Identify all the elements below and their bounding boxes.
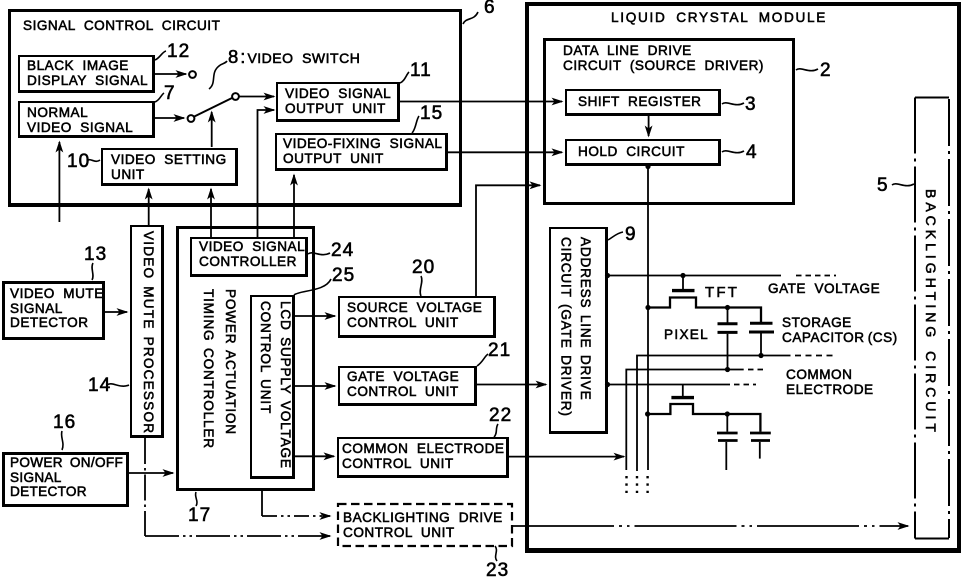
backlighting drive control unit 23 dashed border (338, 504, 512, 546)
storage capacitor 2 stub (759, 442, 761, 459)
block: common electrode control unit 22 (337, 437, 509, 478)
numeral 12 (167, 41, 190, 63)
junction at hold circuit output (645, 164, 650, 169)
junction data line / TFT1 source (645, 305, 650, 310)
block: video mute signal detector 13 (2, 281, 105, 340)
block: backlighting circuit 5 (phantom border, vertical) (921, 189, 940, 436)
junction storage capacitor / CS line (758, 353, 763, 358)
junction TFT1 drain / pixel capacitor (725, 305, 730, 310)
block: video signal output unit 11 (276, 82, 400, 122)
numeral 16 (53, 412, 76, 434)
leader line 15 (412, 116, 419, 133)
gate line 1 from address line driver (608, 275, 781, 277)
wire: video signal controller up to video setting unit (210, 189, 212, 237)
block: gate voltage control unit 21 (338, 366, 477, 406)
block: backlighting drive control unit 23 (dashed border) (338, 504, 512, 546)
switch contact circle (upper) (189, 71, 196, 78)
wire: phantom line to backlighting drive control unit (lower) (145, 535, 330, 537)
TFT2 gate bar (671, 396, 694, 399)
switch contact circle (lower) (188, 115, 195, 122)
leader line 11 (400, 72, 409, 83)
TFT2 gate lead (682, 385, 684, 397)
leader line 6 (463, 12, 478, 24)
TFT1 channel and source/drain (648, 298, 762, 323)
liquid crystal module outer box (525, 2, 961, 553)
TFT2 channel and source/drain (648, 404, 761, 432)
pixel capacitor 2 plates (717, 432, 738, 435)
wire: lcd supply voltage to gate voltage control unit (295, 385, 335, 387)
pixel capacitor plates (718, 322, 738, 325)
storage capacitor 2 plates (750, 432, 771, 435)
numeral 6 (484, 0, 496, 19)
leader line 21 (477, 354, 488, 366)
wire: video signal output unit to shift register (400, 101, 562, 103)
leader line 25 (294, 279, 331, 295)
wire: video mute processor phantom line down (144, 438, 146, 536)
numeral 20 (412, 257, 435, 279)
leader line 22 (494, 424, 498, 437)
numeral 14 (88, 375, 111, 397)
numeral 13 (84, 244, 107, 266)
wire: shift register to hold circuit (648, 116, 650, 136)
label: PIXEL (664, 328, 709, 343)
block: video setting unit 10 (101, 148, 238, 186)
wire: data line from hold circuit down through pixels (647, 166, 649, 470)
common electrode line dashed continuation (748, 369, 767, 371)
block: video mute processor 14 (vertical) (130, 225, 164, 438)
numeral 15 (420, 103, 443, 125)
block: black image display signal 12 (18, 55, 155, 93)
wire: phantom line to backlighting drive control unit (upper) (262, 515, 330, 517)
wire: video signal controller to video-fixing signal output unit (293, 175, 295, 237)
numeral 9 (625, 224, 637, 246)
wire: common electrode control unit output arrow (509, 456, 624, 458)
block: hold circuit 4 (565, 139, 721, 166)
numeral 7 (164, 83, 176, 105)
gate line 2 from address line driver (608, 384, 730, 386)
junction pixel capacitor / common electrode line (725, 367, 730, 372)
leader line 24 (tilde) (308, 253, 330, 255)
block: video signal controller 24 (190, 237, 308, 277)
junction TFT2 drain / capacitor (725, 411, 730, 416)
wire: video signal controller to video signal output unit (258, 110, 275, 237)
block: data line drive circuit (source driver) 2 (543, 38, 795, 205)
leader line 4 (tilde) (722, 151, 744, 153)
TFT1 gate lead (682, 276, 684, 290)
numeral 5 (877, 175, 889, 197)
wire: backlighting drive control unit to backlighting circuit (512, 525, 908, 527)
block: power actuation timing controller 17 (176, 226, 315, 491)
junction on address box edge (gate line 1) (605, 273, 610, 278)
CS line dashed continuation (795, 355, 837, 357)
wire: video mute processor up to video setting unit (148, 189, 150, 225)
numeral 25 (332, 265, 355, 287)
pixel capacitor 2 lead (726, 414, 728, 432)
leader line 5 (tilde) (892, 184, 914, 186)
pixel capacitor 2 stub (725, 442, 727, 470)
wire: timing controller down to backlighting drive control unit (261, 490, 263, 516)
leader line 9 (608, 232, 623, 240)
label: SIGNAL CONTROL CIRCUIT (23, 19, 220, 34)
switch pole circle (232, 93, 239, 100)
junction data line / TFT2 source (645, 411, 650, 416)
TFT1 gate bar (672, 289, 695, 292)
common electrode line with corner down (626, 370, 743, 471)
block: LCD supply voltage control unit 25 (vertical) (250, 295, 295, 479)
block: video-fixing signal output unit 15 (275, 133, 448, 171)
video switch blade 8 (194, 98, 232, 117)
label: GATE VOLTAGE (768, 282, 880, 297)
wire: black image display signal to switch contact (155, 73, 186, 75)
storage capacitor CS plates (750, 322, 773, 325)
leader line 23 (495, 546, 497, 561)
label: COMMON ELECTRODE (786, 368, 874, 397)
wire: video setting unit arrow at switch blade (211, 112, 213, 147)
wire: external video input into normal video signal (58, 142, 60, 222)
leader line 16 (62, 431, 63, 450)
label: STORAGE CAPACITOR (CS) (782, 316, 898, 345)
pixel capacitor C-LC lead upper (727, 308, 729, 323)
wire: gate voltage control unit to address line drive circuit (477, 384, 546, 386)
gate line 1 dashed continuation (796, 275, 836, 277)
storage capacitor lower lead (760, 334, 762, 356)
leader line 10 (tilde) (87, 160, 100, 162)
numeral 11 (410, 60, 432, 82)
numeral 22 (489, 405, 512, 427)
junction at TFT1 gate (680, 273, 685, 278)
pixel capacitor lead lower (727, 334, 729, 370)
wire: lcd supply voltage to source voltage control unit (295, 315, 335, 317)
numeral 17 (188, 505, 211, 527)
leader line 2 (tilde) (796, 69, 818, 71)
leader line 12 (155, 51, 166, 60)
wire: power on/off signal detector to timing controller (129, 472, 173, 474)
wire: lcd supply voltage to common electrode control unit (295, 455, 334, 457)
block: address line drive circuit (gate driver) 9 (vertical) (549, 227, 608, 434)
leader line 7 (155, 93, 164, 102)
leader line 8 (209, 61, 227, 89)
numeral 21 (488, 340, 511, 362)
numeral 4 (746, 142, 758, 164)
block: power on/off signal detector 16 (2, 452, 129, 507)
wire: switch pole to video signal output unit (239, 96, 274, 98)
wire: video-fixing signal output unit to hold circuit (448, 151, 562, 153)
wire: normal video signal to switch contact (155, 117, 184, 119)
leader line 17 (196, 492, 197, 506)
leader line 14 (tilde) (107, 384, 129, 386)
gate line 2 dashed continuation (734, 384, 756, 386)
backlighting circuit box 5 phantom border (915, 97, 949, 99)
block: shift register 3 (565, 89, 721, 116)
block: source voltage control unit 20 (338, 296, 496, 338)
numeral 10 (67, 151, 90, 173)
CS line with corner down (637, 356, 791, 472)
junction on address box edge (gate line 2) (605, 382, 610, 387)
leader line 3 (tilde) (722, 103, 744, 105)
signal control circuit outer box 6 (8, 9, 462, 207)
numeral 24 (331, 240, 354, 262)
leader line 20 (420, 276, 422, 296)
dotted continuation of column lines (625, 476, 627, 493)
block: normal video signal 7 (18, 101, 155, 138)
numeral 23 (486, 560, 509, 580)
label: TFT (705, 286, 739, 301)
numeral 3 (745, 94, 757, 116)
numeral 2 (820, 60, 832, 82)
leader line 13 (92, 263, 93, 280)
wire: video mute signal detector to video mute processor (105, 311, 127, 313)
label: LIQUID CRYSTAL MODULE (611, 11, 827, 26)
wire: source voltage control unit to data line drive circuit (476, 185, 540, 296)
numeral 8 (228, 50, 360, 66)
